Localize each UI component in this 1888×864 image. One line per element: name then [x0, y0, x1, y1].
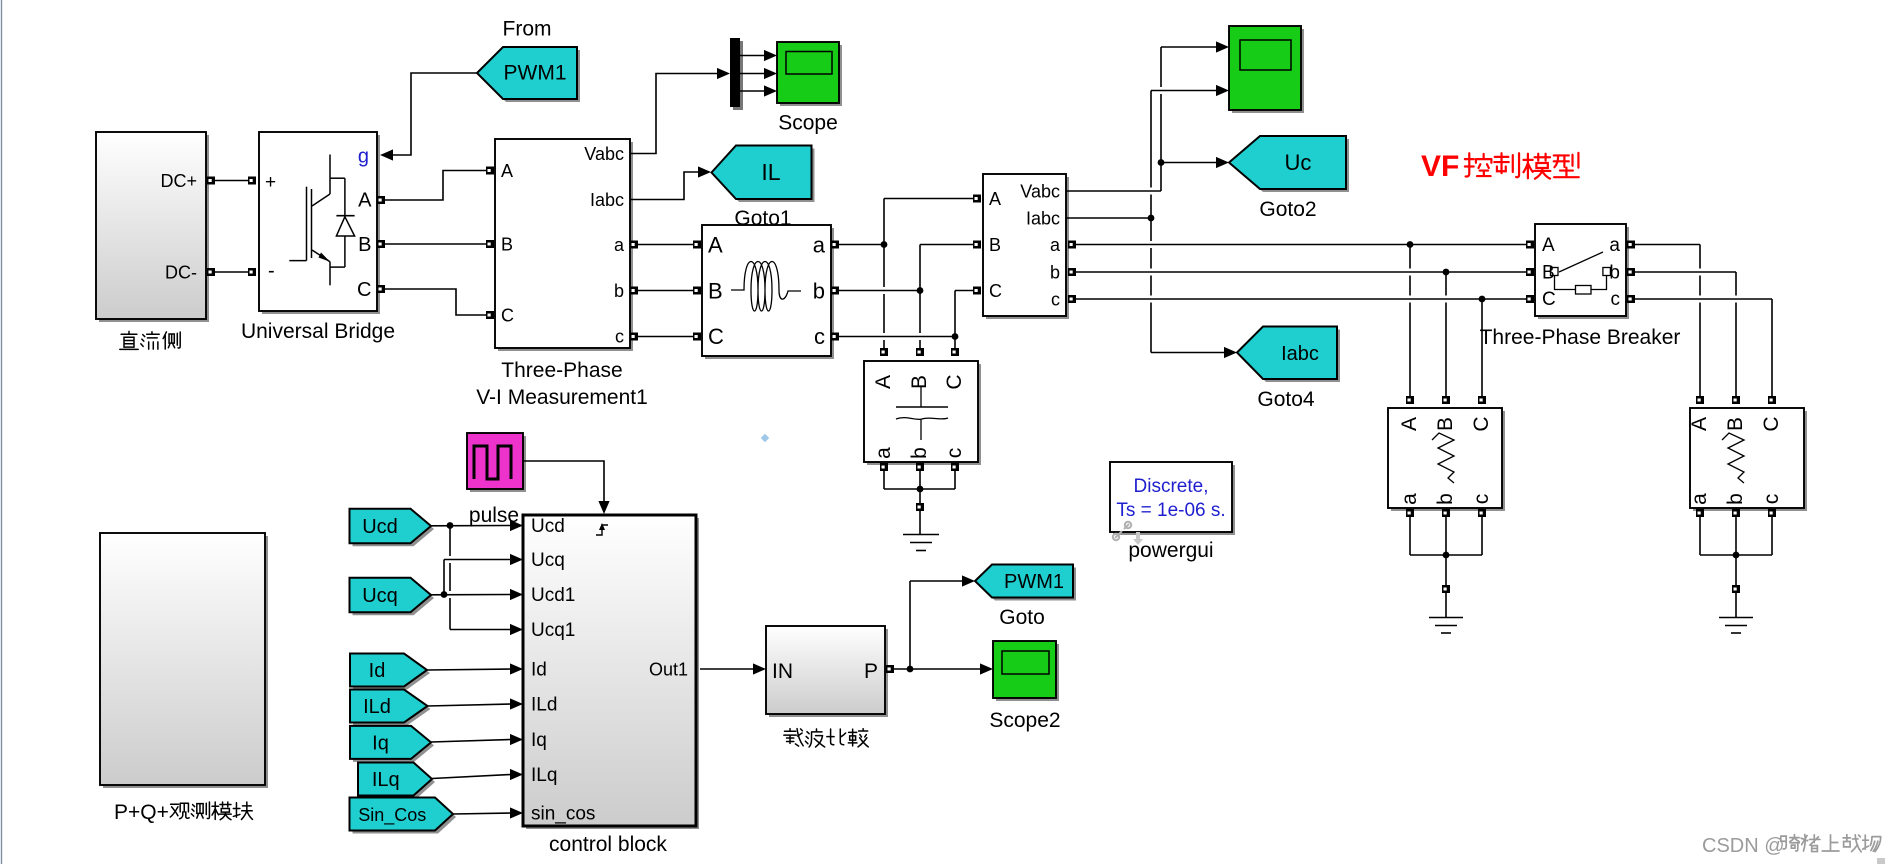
svg-text:A: A [1398, 417, 1421, 431]
svg-text:B: B [908, 375, 931, 389]
svg-text:a: a [1398, 493, 1421, 505]
svg-text:C: C [989, 281, 1002, 301]
svg-text:C: C [708, 324, 724, 349]
svg-text:C: C [1470, 416, 1493, 431]
svg-text:Iabc: Iabc [1281, 343, 1319, 365]
svg-text:Scope2: Scope2 [989, 709, 1060, 732]
svg-text:ILd: ILd [531, 695, 557, 716]
svg-text:b: b [813, 279, 825, 304]
svg-text:c: c [1611, 289, 1621, 310]
svg-text:b: b [908, 447, 931, 459]
svg-text:c: c [615, 327, 624, 347]
svg-text:C: C [1542, 289, 1556, 310]
svg-text:b: b [1724, 493, 1747, 505]
svg-text:Ts = 1e-06 s.: Ts = 1e-06 s. [1116, 500, 1225, 521]
svg-text:B: B [501, 235, 513, 255]
svg-text:IN: IN [772, 660, 793, 683]
svg-text:a: a [1609, 235, 1620, 256]
svg-text:Id: Id [531, 660, 547, 681]
svg-text:c: c [1760, 494, 1783, 505]
svg-text:B: B [358, 234, 371, 256]
svg-text:Ucq: Ucq [531, 550, 565, 571]
svg-text:Out1: Out1 [649, 660, 688, 680]
svg-text:A: A [872, 375, 895, 389]
svg-text:From: From [503, 18, 552, 41]
svg-text:ILq: ILq [531, 765, 557, 786]
svg-text:Three-Phase Breaker: Three-Phase Breaker [1480, 326, 1681, 349]
svg-text:A: A [1542, 235, 1555, 256]
svg-text:C: C [1760, 416, 1783, 431]
svg-text:a: a [813, 233, 826, 258]
svg-text:A: A [708, 233, 723, 258]
svg-text:b: b [614, 281, 624, 301]
svg-text:Ucq1: Ucq1 [531, 620, 575, 641]
svg-text:sin_cos: sin_cos [531, 804, 595, 825]
svg-text:Ucq: Ucq [362, 585, 398, 607]
svg-text:c: c [814, 324, 825, 349]
svg-text:B: B [1542, 263, 1555, 284]
svg-text:PWM1: PWM1 [1004, 571, 1064, 593]
svg-text:IL: IL [761, 159, 780, 185]
svg-text:PWM1: PWM1 [504, 62, 567, 85]
svg-text:Goto: Goto [999, 606, 1045, 629]
svg-text:Iabc: Iabc [1026, 209, 1060, 229]
svg-text:b: b [1050, 263, 1060, 283]
svg-text:VF: VF [1421, 150, 1459, 183]
svg-text:Ucd: Ucd [531, 516, 565, 537]
svg-text:a: a [1050, 235, 1061, 255]
svg-text:Uc: Uc [1285, 150, 1312, 175]
svg-text:c: c [1470, 494, 1493, 505]
svg-text:C: C [357, 279, 371, 301]
svg-text:Discrete,: Discrete, [1134, 476, 1209, 497]
svg-text:C: C [943, 374, 966, 389]
svg-text:A: A [989, 189, 1001, 209]
svg-text:B: B [989, 235, 1001, 255]
svg-text:Ucd1: Ucd1 [531, 585, 575, 606]
svg-text:powergui: powergui [1128, 539, 1213, 562]
svg-text:P: P [864, 660, 878, 683]
svg-text:ILd: ILd [363, 696, 391, 718]
svg-text:+: + [265, 172, 276, 193]
svg-text:Scope: Scope [778, 112, 838, 135]
svg-text:B: B [1434, 417, 1457, 431]
svg-text:V-I Measurement1: V-I Measurement1 [476, 386, 648, 409]
svg-text:A: A [501, 161, 513, 181]
svg-text:b: b [1434, 493, 1457, 505]
svg-text:P+Q+: P+Q+ [114, 801, 169, 824]
svg-text:Vabc: Vabc [584, 144, 624, 164]
svg-text:Vabc: Vabc [1020, 182, 1060, 202]
svg-text:Iq: Iq [372, 732, 389, 754]
svg-text:A: A [1688, 417, 1711, 431]
svg-text:a: a [1688, 493, 1711, 505]
svg-text:C: C [501, 306, 514, 326]
svg-text:c: c [1051, 290, 1060, 310]
svg-text:Ucd: Ucd [362, 516, 398, 538]
svg-text:Universal Bridge: Universal Bridge [241, 320, 395, 343]
svg-text:Goto4: Goto4 [1257, 388, 1315, 411]
svg-text:Goto2: Goto2 [1259, 198, 1316, 221]
svg-text:CSDN @: CSDN @ [1702, 835, 1785, 857]
svg-text:a: a [614, 235, 625, 255]
svg-text:c: c [943, 448, 966, 459]
svg-text:Three-Phase: Three-Phase [501, 359, 622, 382]
svg-text:g: g [358, 146, 369, 168]
svg-text:Sin_Cos: Sin_Cos [358, 805, 426, 826]
svg-text:Iq: Iq [531, 730, 547, 751]
svg-text:control block: control block [549, 833, 667, 856]
svg-text:DC+: DC+ [160, 171, 197, 191]
svg-text:a: a [872, 447, 895, 459]
svg-text:-: - [268, 260, 275, 282]
svg-text:ILq: ILq [372, 769, 400, 791]
svg-text:B: B [1724, 417, 1747, 431]
svg-text:Iabc: Iabc [590, 190, 624, 210]
svg-text:B: B [708, 279, 723, 304]
svg-text:Id: Id [369, 660, 386, 682]
svg-text:A: A [358, 190, 372, 212]
svg-text:DC-: DC- [165, 263, 197, 283]
